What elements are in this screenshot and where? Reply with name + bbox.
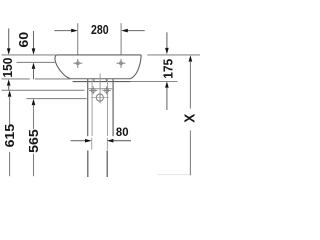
svg-text:80: 80 [116, 125, 129, 139]
svg-text:150: 150 [1, 58, 15, 78]
arrowhead right-pointing [71, 29, 78, 33]
280 extension line right [120, 23, 122, 55]
arrowhead up [32, 63, 36, 69]
mount hole right [102, 86, 110, 94]
arrowhead up at bottom line [165, 81, 169, 87]
pipe inner right [106, 79, 108, 150]
supply pipe lower right [106, 151, 108, 178]
arrowhead down [7, 48, 11, 54]
arrowhead right-pointing [85, 139, 92, 143]
centerline [99, 74, 101, 104]
fixing hole left [73, 59, 82, 68]
svg-text:175: 175 [162, 59, 176, 79]
280 extension line left [77, 23, 79, 54]
rim-top extension line left [2, 54, 56, 56]
basin right profile [130, 55, 141, 79]
lower tail [8, 85, 10, 90]
tap-hole-line extension left [17, 61, 56, 63]
arrowhead up [8, 90, 12, 96]
upper tail [8, 28, 10, 49]
lower tail [33, 68, 35, 79]
basin-bottom extension line right [131, 81, 178, 83]
upper tail [33, 31, 35, 49]
arrowhead down [165, 48, 169, 54]
arrowhead up [7, 79, 11, 85]
arrowhead up [32, 99, 36, 105]
565-top extension line [26, 98, 86, 100]
arrowhead left-pointing [121, 29, 128, 33]
arrowhead down [32, 48, 36, 54]
overflow tab under basin [94, 78, 106, 81]
pipe inner left [91, 79, 93, 150]
dim line left tail [54, 30, 72, 32]
upper tail [33, 105, 35, 129]
pipe outer left [87, 79, 89, 136]
basin left profile [55, 55, 70, 79]
lower tail [33, 154, 35, 177]
lower tail [166, 87, 168, 110]
upper tail [9, 96, 11, 126]
left tail [71, 140, 86, 142]
upper segment [189, 61, 191, 108]
drain hole [91, 92, 109, 103]
lower tail [9, 152, 11, 176]
upper tail [166, 32, 168, 48]
supply pipe lower left [87, 151, 89, 178]
arrowhead left-pointing [107, 139, 114, 143]
basin bottom front edge [73, 81, 131, 83]
fixing hole right [117, 59, 126, 68]
svg-text:280: 280 [91, 22, 109, 37]
svg-text:60: 60 [17, 32, 31, 48]
basin rim top [56, 54, 141, 56]
dim line right tail [127, 30, 145, 32]
pedestal top line [88, 88, 113, 90]
615-top extension line [2, 89, 85, 91]
150-bottom extension line [2, 78, 71, 80]
svg-text:615: 615 [3, 124, 17, 148]
arrowhead up at rim extension [189, 55, 193, 61]
svg-text:X: X [181, 114, 198, 123]
rim-top extension line right [147, 54, 200, 56]
basin back bottom edge [70, 78, 130, 80]
mount hole left [89, 86, 97, 94]
pipe outer right [112, 79, 114, 136]
lower segment [189, 131, 191, 176]
right tail [113, 140, 131, 142]
washbasin technical dimension drawing [0, 0, 200, 200]
floor line right [158, 174, 191, 176]
svg-text:565: 565 [27, 129, 41, 153]
